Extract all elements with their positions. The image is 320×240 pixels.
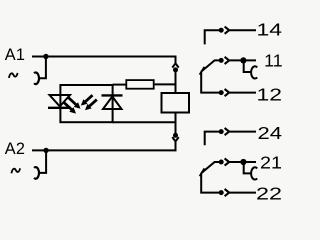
plug pin 21	[219, 160, 224, 165]
actuator tick 11	[200, 67, 205, 75]
wire A1 top rail to coil drop	[32, 57, 176, 63]
actuator tick 21	[200, 168, 205, 176]
contact jaw 21	[244, 165, 251, 174]
plug socket 12	[225, 89, 230, 96]
svg-text:21: 21	[260, 153, 282, 173]
wire to terminal 22	[229, 192, 256, 194]
contact arm 21 (changeover common)	[201, 162, 223, 173]
plug socket 14	[225, 27, 230, 34]
wire box bottom to coil line	[113, 121, 176, 123]
cathode bar V1	[48, 107, 71, 109]
light arrows V1	[64, 97, 81, 113]
contact 24 fixed (NO)	[205, 132, 223, 146]
plug contact pin (coil bottom)	[173, 133, 178, 138]
terminal clamp A1	[34, 73, 39, 85]
plug pin 14	[219, 28, 224, 33]
node A2 junction	[43, 148, 48, 153]
svg-text:A2: A2	[5, 140, 25, 158]
plug contact socket (coil bottom)	[172, 137, 178, 141]
resistor R1	[126, 80, 153, 89]
light arrows V2	[81, 95, 97, 110]
AC symbol ~ at A2	[11, 168, 20, 173]
svg-text:24: 24	[258, 123, 283, 143]
svg-text:12: 12	[257, 84, 283, 104]
contact jaw arc 11	[251, 66, 257, 78]
plug contact pin (coil top)	[173, 67, 178, 72]
plug socket 22	[225, 189, 230, 196]
AC symbol ~ at A1	[9, 73, 18, 78]
wire to terminal 21	[229, 161, 256, 163]
contact 12 fixed (NC)	[201, 72, 223, 93]
wire to terminal 12	[229, 92, 256, 94]
plug pin 22	[219, 190, 224, 195]
node 21 junction	[240, 159, 246, 165]
wire A1 down to clamp	[40, 57, 46, 79]
plug pin 24	[219, 129, 224, 134]
wire plug to coil	[175, 71, 177, 92]
wire to terminal 24	[229, 131, 256, 133]
cathode bar V2	[102, 94, 123, 96]
plug socket 21	[225, 158, 230, 165]
wire box to resistor	[113, 84, 126, 86]
indicator module box	[60, 85, 112, 122]
contact 14 fixed (NO)	[205, 30, 223, 44]
LED V2 (conducting up)	[103, 96, 122, 109]
wire A2 down to clamp	[40, 150, 47, 173]
node 11 junction	[240, 57, 246, 63]
relay coil K1	[162, 93, 190, 113]
plug socket 24	[225, 128, 230, 135]
wire resistor to coil line	[155, 83, 175, 85]
node A1 junction	[43, 54, 48, 59]
wire coil bottom	[175, 114, 177, 134]
plug contact socket (coil top)	[172, 63, 178, 67]
svg-text:22: 22	[256, 184, 282, 204]
contact arm 11 (changeover common)	[201, 60, 223, 71]
plug pin 11	[219, 58, 224, 63]
plug pin 12	[219, 90, 224, 95]
svg-text:11: 11	[264, 51, 283, 71]
svg-text:A1: A1	[5, 46, 25, 64]
LED V1 (conducting down)	[50, 95, 71, 106]
wire to A2 rail	[32, 142, 176, 151]
svg-text:14: 14	[257, 20, 283, 40]
terminal clamp A2	[34, 167, 39, 179]
wire to terminal 11	[229, 59, 256, 61]
contact 22 fixed (NC)	[201, 173, 223, 192]
plug socket 11	[225, 57, 230, 64]
contact jaw arc 21	[251, 167, 257, 179]
wire to terminal 14	[229, 29, 256, 31]
contact jaw 11	[244, 63, 251, 72]
